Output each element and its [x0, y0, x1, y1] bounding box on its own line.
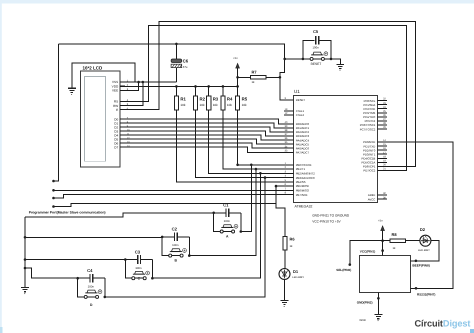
LCD pin 3 VEE [120, 89, 125, 91]
svg-text:C2: C2 [172, 227, 178, 232]
svg-text:R6: R6 [290, 237, 296, 242]
U1 pin 3 PB2/AIN0/INT2 [284, 172, 294, 174]
wire +5v bus from LCD VDD to R5 column [120, 85, 237, 87]
U1 pin 16 PD2/INT0 [378, 149, 388, 151]
U1 pin 5 PB4/SS [284, 181, 294, 183]
wire R5 bottom to PB0 [238, 110, 284, 165]
svg-text:47u: 47u [183, 65, 188, 69]
svg-text:GND-PIN11 TO GROUND: GND-PIN11 TO GROUND [312, 214, 350, 218]
wire SEL to +5v node [350, 241, 383, 265]
pushbutton B [170, 251, 182, 253]
ground at reset button [339, 59, 341, 65]
LCD screen area [85, 77, 106, 162]
capacitor C1 100n [214, 212, 226, 214]
U1 pin 36 PA4/ADC4 [284, 139, 294, 141]
svg-text:PC7/TOSC2: PC7/TOSC2 [360, 127, 376, 131]
U1 pin 13 XTAL1 [284, 110, 294, 112]
U1 pin 6 PB5/MOSI [284, 185, 294, 187]
wire GND pin of module [377, 292, 379, 314]
svg-text:RESET: RESET [296, 98, 306, 102]
pushbutton D [85, 292, 97, 294]
ground near LCD [72, 63, 135, 88]
wire LCD D4 to U1 PA4 [120, 135, 284, 140]
U1 pin 38 PA2/ADC2 [284, 131, 294, 133]
capacitor C2 100n [162, 236, 174, 238]
U1 pin 34 PA6/ADC6 [284, 147, 294, 149]
svg-text:GND(PIN2): GND(PIN2) [357, 300, 373, 304]
LCD pin 7 D0 [120, 118, 125, 120]
wire PB5 to U1 [276, 185, 284, 187]
U1 pin 35 PA5/ADC5 [284, 143, 294, 145]
node programmer MOSI [52, 205, 55, 208]
LCD pin 8 D1 [120, 122, 125, 124]
U1 pin 40 PA0/ADC0 [284, 123, 294, 125]
U1 pin 27 PC5/TDI [378, 120, 388, 122]
wire C2 unit to PB1 [189, 169, 256, 256]
resistor R5 10k [236, 96, 240, 110]
microcontroller U1 box [294, 96, 378, 203]
U1 pin 7 PB6/MISO [284, 189, 294, 191]
svg-text:GND: GND [360, 318, 366, 322]
U1 pin 25 PC3/TMS [378, 112, 388, 114]
wire programmer MOSI to PB5 [54, 186, 277, 206]
U1 pin 19 PD5/OC1A [378, 161, 388, 163]
wire bus to C4 unit [25, 268, 78, 278]
wire LCD D2 to U1 PA2 [120, 127, 284, 132]
U1 pin 33 PA7/ADC7 [284, 151, 294, 153]
svg-text:LED-BIBY: LED-BIBY [292, 276, 304, 279]
wire C2 loop [162, 237, 170, 256]
U1 pin 14 PD0/RXD [378, 141, 388, 143]
svg-text:D2: D2 [420, 227, 426, 232]
U1 pin 30 AVCC [378, 198, 388, 200]
svg-text:PA7/ADC7: PA7/ADC7 [296, 151, 310, 155]
U1 pin 17 PD3/INT1 [378, 153, 388, 155]
LED D2 [406, 240, 420, 242]
wire C1 unit to PB0 [241, 165, 252, 232]
U1 pin 12 XTAL2 [284, 114, 294, 116]
svg-text:R7: R7 [252, 70, 258, 75]
wire R4 top [222, 86, 224, 96]
U1 pin 39 PA1/ADC1 [284, 127, 294, 129]
U1 pin 23 PC1/SDA [378, 104, 388, 106]
wire +5v arrow stem [237, 68, 239, 86]
resistor R4 10k [221, 96, 225, 110]
svg-text:+5v: +5v [378, 218, 383, 222]
LCD pin 4 RS [120, 100, 125, 102]
U1 pin 8 PB7/SCK [284, 194, 294, 196]
svg-text:U1: U1 [294, 89, 300, 94]
wire ground bus left [24, 217, 26, 288]
U1 pin 18 PD4/OC1B [378, 157, 388, 159]
U1 pin 29 PC7/TOSC2 [378, 128, 388, 130]
wire R1 top [175, 86, 177, 96]
svg-text:10k: 10k [213, 103, 218, 107]
wire C3 unit to PB2 [152, 173, 260, 278]
wire R3 bottom to PB2 [209, 110, 284, 173]
svg-text:100n: 100n [313, 46, 320, 50]
wire LCD D0 to U1 PA0 [120, 119, 284, 124]
wire VSS line [120, 81, 176, 83]
svg-text:R5: R5 [242, 97, 248, 102]
U1 pin 22 PC0/SCL [378, 100, 388, 102]
capacitor C4 100n [78, 277, 90, 279]
LCD module LCD1 box [81, 71, 121, 167]
capacitor C6 [175, 44, 177, 59]
wire +5v to R7 [238, 76, 251, 78]
wire C4 unit to PB3 [105, 178, 265, 297]
U1 pin 21 PD7/OC2 [378, 170, 388, 172]
svg-text:100n: 100n [88, 285, 95, 289]
svg-text:C3: C3 [135, 249, 141, 254]
LED D1 [279, 269, 290, 280]
svg-text:10k: 10k [242, 103, 247, 107]
wire D2 to BEEP pin [411, 241, 439, 261]
resistor R3 10k [207, 96, 211, 110]
U1 pin 15 PD1/TXD [378, 145, 388, 147]
svg-text:100n: 100n [224, 219, 231, 223]
U1 pin 37 PA3/ADC3 [284, 135, 294, 137]
svg-text:10k: 10k [200, 103, 205, 107]
svg-text:CírcuitDigest: CírcuitDigest [415, 319, 471, 329]
wire LCD D5 to U1 PA5 [120, 139, 284, 144]
module box bottom right [359, 255, 410, 292]
svg-text:R2: R2 [200, 97, 206, 102]
svg-text:VCC-PIN10 TO +5V: VCC-PIN10 TO +5V [312, 220, 341, 224]
capacitor C3 100n [125, 259, 137, 261]
wire R5 top [237, 86, 239, 96]
svg-text:PD7/OC2: PD7/OC2 [363, 169, 375, 173]
svg-text:AVCC: AVCC [368, 197, 376, 201]
wire D1 to ground [284, 280, 286, 301]
resistor R6 1k [283, 236, 287, 250]
svg-text:100n: 100n [172, 243, 179, 247]
svg-text:PB7/SCK: PB7/SCK [296, 193, 308, 197]
U1 pin 28 PC6/TOSC1 [378, 124, 388, 126]
wire reset button row [285, 58, 311, 60]
LCD pin 10 D3 [120, 130, 125, 132]
svg-text:R3: R3 [213, 97, 219, 102]
LCD pin 13 D6 [120, 142, 125, 144]
wire R6 to D1 [284, 250, 286, 268]
wire +5v to module VCC [382, 231, 384, 256]
wire LCD E to U1 PD6 loop [120, 22, 415, 167]
svg-text:R8: R8 [392, 232, 398, 237]
U1 pin 26 PC4/TDO [378, 116, 388, 118]
node programmer MISO [52, 189, 55, 192]
svg-text:VEE: VEE [112, 89, 118, 93]
svg-text:C5: C5 [313, 29, 319, 34]
resistor R1 10k [174, 96, 178, 110]
wire R2 top [195, 86, 197, 96]
wire C3 loop [125, 260, 133, 279]
LCD pin 11 D4 [120, 134, 125, 136]
svg-text:+5v: +5v [233, 56, 238, 60]
wire VEE to ground line [120, 82, 138, 90]
svg-text:10k: 10k [227, 103, 232, 107]
wire R1 bottom to PB4 [176, 110, 284, 182]
U1 pin 20 PD6/ICP1 [378, 165, 388, 167]
wire bus to C1 unit [25, 213, 214, 217]
svg-text:BEEP(PIN8): BEEP(PIN8) [412, 263, 429, 267]
LCD pin 12 D5 [120, 138, 125, 140]
svg-text:Programmer Port(Master Slave c: Programmer Port(Master Slave communicati… [29, 211, 106, 215]
wire RW to ground line [120, 82, 143, 106]
resistor R8 1k [383, 240, 390, 242]
svg-text:R4: R4 [227, 97, 233, 102]
wire LCD RS to U1 PD7 loop [120, 26, 406, 171]
svg-text:LED-BIBY: LED-BIBY [418, 249, 430, 252]
svg-text:XTAL2: XTAL2 [296, 113, 305, 117]
svg-text:E: E [116, 108, 118, 112]
U1 pin 9 RESET [284, 99, 294, 101]
pushbutton RESET [311, 54, 323, 56]
wire C4 loop [78, 278, 86, 297]
svg-text:RS232(PIN7): RS232(PIN7) [417, 292, 435, 296]
svg-text:D1: D1 [293, 269, 299, 274]
U1 pin 24 PC2/TCK [378, 108, 388, 110]
wire LCD D1 to U1 PA1 [120, 123, 284, 128]
svg-text:ATMEGA32: ATMEGA32 [295, 205, 313, 209]
wire LCD D3 to U1 PA3 [120, 131, 284, 136]
U1 pin 4 PB3/AIN1/OC0 [284, 177, 294, 179]
wire R4 bottom to PB1 [223, 110, 284, 169]
svg-text:SEL(PIN6): SEL(PIN6) [336, 268, 351, 272]
U1 pin 32 AREF [378, 194, 388, 196]
LCD pin 14 D7 [120, 146, 125, 148]
LCD pin 5 RW [120, 105, 125, 107]
svg-text:100n: 100n [135, 266, 142, 270]
wire LCD D7 to U1 PA7 [120, 147, 284, 152]
U1 pin 2 PB1/T1 [284, 168, 294, 170]
wire RESET to programmer port [54, 44, 59, 181]
resistor R2 10k [193, 96, 197, 110]
svg-text:VCC(PIN1): VCC(PIN1) [360, 249, 375, 253]
LCD pin 6 E [120, 109, 125, 111]
wire R7 to reset node [266, 76, 280, 78]
svg-text:D7: D7 [114, 145, 118, 149]
U1 pin 1 PB0/T0/XCK [284, 164, 294, 166]
capacitor C5 100n [303, 40, 314, 59]
svg-text:RESET: RESET [311, 62, 322, 66]
resistor R7 1k [251, 76, 266, 80]
pushbutton A [221, 227, 233, 229]
LCD pin 9 D2 [120, 126, 125, 128]
wire RS232 to U1 PD0 [387, 142, 453, 288]
svg-text:C1: C1 [223, 203, 229, 208]
svg-text:R1: R1 [180, 97, 186, 102]
wire reset net [58, 44, 284, 100]
ground below D1 [281, 300, 289, 304]
node programmer SCK [52, 197, 55, 200]
wire LCD D6 to U1 PA6 [120, 143, 284, 148]
svg-text:C4: C4 [87, 268, 93, 273]
wire C1 loop [214, 213, 222, 232]
wire PB5 node to R6 [276, 186, 285, 236]
node programmer RESET [52, 180, 55, 183]
wire bus to C3 unit [25, 259, 125, 261]
LCD pin 2 VDD [120, 85, 125, 87]
wire programmer SCK to PB7 [54, 195, 285, 198]
wire R3 top [208, 86, 210, 96]
pushbutton C [133, 273, 145, 275]
LCD pin 1 VSS [120, 81, 125, 83]
svg-text:C6: C6 [183, 59, 189, 64]
wire bus to C2 unit [25, 236, 162, 238]
svg-text:10k: 10k [180, 103, 185, 107]
svg-text:16*2 LCD: 16*2 LCD [83, 65, 104, 70]
wire R2 bottom to PB3 [196, 110, 285, 178]
ground at bottom of left bus [21, 288, 29, 292]
wire programmer MISO to PB6 [54, 189, 285, 191]
ground below module [374, 315, 382, 319]
